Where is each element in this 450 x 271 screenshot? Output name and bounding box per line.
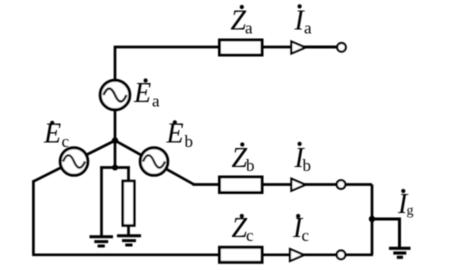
node ground tap junction bbox=[369, 216, 375, 222]
wire right vertical joining b and c bbox=[371, 185, 374, 255]
label E_b bbox=[166, 119, 194, 151]
svg-text:b: b bbox=[303, 156, 312, 175]
label I_g bbox=[397, 189, 414, 220]
source E_a bbox=[100, 80, 130, 110]
label E_a bbox=[133, 78, 160, 110]
arrow I_c bbox=[290, 249, 304, 261]
ground left neutral bbox=[90, 237, 114, 246]
wire b-row Z_b to terminal bbox=[262, 183, 372, 186]
label I_b bbox=[294, 142, 312, 175]
terminal phase c bbox=[337, 251, 346, 260]
svg-text:a: a bbox=[245, 19, 253, 38]
node star point bbox=[112, 137, 118, 143]
svg-text:c: c bbox=[62, 132, 70, 151]
svg-text:E: E bbox=[133, 78, 151, 109]
wire neutral left drop to ground bbox=[100, 166, 103, 236]
wire star to E_c to left corner bbox=[33, 141, 115, 182]
wire phase-a after arrow to terminal bbox=[305, 46, 337, 49]
arrow I_a bbox=[291, 42, 305, 54]
impedance Z_a box bbox=[220, 40, 263, 55]
ground right neutral bbox=[117, 236, 141, 245]
wire neutral tee bar bbox=[100, 166, 130, 169]
impedance Z_b box bbox=[220, 177, 263, 193]
svg-text:a: a bbox=[304, 19, 312, 38]
label I_c bbox=[292, 213, 310, 245]
wire phase-a top run bbox=[115, 47, 341, 141]
svg-text:b: b bbox=[246, 156, 255, 175]
wire left vertical and bottom run bbox=[32, 180, 219, 255]
terminal phase a bbox=[337, 43, 346, 52]
label Z_a bbox=[231, 5, 254, 38]
source E_c bbox=[60, 148, 88, 176]
svg-text:g: g bbox=[407, 204, 414, 219]
wire star to E_b to b-row corner bbox=[115, 141, 194, 185]
terminal phase b bbox=[337, 180, 346, 189]
label Z_c bbox=[232, 213, 255, 245]
label Z_b bbox=[232, 142, 255, 175]
svg-text:c: c bbox=[302, 226, 310, 245]
impedance Z_c box bbox=[220, 247, 263, 262]
ground I_g bbox=[389, 248, 411, 257]
wire ground tap from right vertical bbox=[372, 219, 400, 248]
source E_b bbox=[140, 148, 168, 176]
node neutral tee bbox=[112, 165, 118, 171]
label I_a bbox=[294, 4, 313, 37]
wire c-row Z_c to terminal bbox=[262, 253, 373, 256]
arrow I_b bbox=[291, 179, 305, 191]
svg-text:b: b bbox=[185, 132, 194, 151]
wire neutral right drop into box bbox=[127, 166, 130, 181]
wire neutral from star down bbox=[114, 139, 117, 168]
label E_c bbox=[43, 119, 70, 151]
svg-text:a: a bbox=[152, 91, 160, 110]
wire below neutral box to ground bbox=[127, 225, 130, 235]
impedance neutral grounding box bbox=[123, 181, 135, 226]
wire b-row horizontal into Z_b bbox=[193, 183, 220, 186]
svg-text:c: c bbox=[246, 226, 254, 245]
